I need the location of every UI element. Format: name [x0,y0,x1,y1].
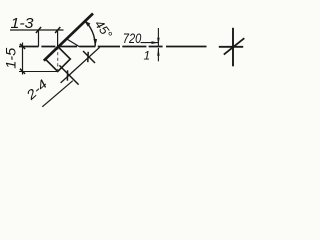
svg-text:1-3: 1-3 [11,16,34,32]
svg-text:720: 720 [123,30,142,46]
svg-text:1-5: 1-5 [4,47,19,69]
svg-text:1: 1 [144,49,151,63]
